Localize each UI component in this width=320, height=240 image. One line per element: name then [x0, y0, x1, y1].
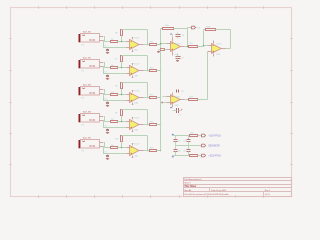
svg-text:AUX_IN4: AUX_IN4: [83, 111, 92, 114]
svg-text:C12: C12: [177, 140, 180, 142]
svg-text:TL071: TL071: [134, 144, 140, 146]
svg-text:Date: 16 jun 2013: Date: 16 jun 2013: [211, 189, 227, 192]
svg-text:TL071: TL071: [175, 97, 181, 99]
svg-text:File: Mixer-sheet.sch: File: Mixer-sheet.sch: [184, 178, 202, 181]
svg-text:C11: C11: [183, 150, 186, 152]
svg-text:TL071: TL071: [216, 43, 222, 45]
svg-text:TL071: TL071: [134, 118, 140, 120]
svg-text:KiCad E.D.A. eeschema (2013-0: KiCad E.D.A. eeschema (2013-06-10 BZR 40…: [184, 193, 229, 196]
svg-text:AUX_IN1: AUX_IN1: [83, 31, 92, 34]
svg-text:TL071: TL071: [134, 64, 140, 66]
svg-text:SENSOR: SENSOR: [208, 144, 219, 148]
svg-text:AUX_IN5: AUX_IN5: [83, 137, 92, 140]
svg-text:TL071: TL071: [134, 38, 140, 40]
svg-text:Title: Mixer: Title: Mixer: [184, 185, 196, 188]
svg-text:C10: C10: [183, 140, 186, 142]
svg-text:C13: C13: [177, 150, 180, 152]
svg-text:+15V PSU: +15V PSU: [208, 154, 220, 158]
svg-text:TL071: TL071: [134, 91, 140, 93]
svg-text:AUX_IN3: AUX_IN3: [83, 84, 92, 87]
svg-text:AUX_IN2: AUX_IN2: [83, 57, 92, 60]
svg-text:Size: A4: Size: A4: [184, 189, 192, 192]
svg-text:+15V PSU: +15V PSU: [208, 134, 220, 138]
svg-text:TL071: TL071: [175, 43, 181, 45]
svg-text:Rev: 1: Rev: 1: [265, 190, 271, 192]
